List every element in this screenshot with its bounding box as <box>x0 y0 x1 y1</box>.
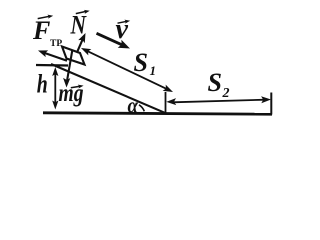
svg-text:ТР: ТР <box>50 39 62 49</box>
label N vector <box>70 9 90 40</box>
incline surface <box>51 64 166 113</box>
gravity force arrow mg <box>67 50 72 81</box>
S2 dimension arrow (double-headed horizontal) <box>172 100 266 103</box>
right vertical tick <box>270 93 272 115</box>
label F vector <box>32 14 54 45</box>
ground line <box>43 113 272 114</box>
svg-text:v: v <box>116 14 129 45</box>
normal force arrow N <box>77 38 84 53</box>
vertical tick at incline base <box>165 92 167 113</box>
velocity arrow v <box>97 33 124 45</box>
block on incline <box>62 47 85 65</box>
angle arc alpha <box>139 105 144 112</box>
svg-text:h: h <box>37 69 48 99</box>
h dimension arrow (double-headed vertical) <box>54 72 56 105</box>
S1 dimension arrow along incline (double-headed) <box>86 50 168 89</box>
svg-text:1: 1 <box>150 63 157 78</box>
friction force arrow F_tr (up the incline) <box>44 53 67 61</box>
h top tick <box>36 64 68 67</box>
label v vector <box>116 14 131 45</box>
svg-text:α: α <box>128 93 139 118</box>
svg-text:S: S <box>208 68 222 97</box>
svg-text:S: S <box>134 48 148 77</box>
label mg vector <box>59 80 84 107</box>
svg-text:F: F <box>32 16 50 45</box>
svg-text:N: N <box>70 11 87 40</box>
svg-text:2: 2 <box>222 86 230 101</box>
svg-text:mg: mg <box>59 80 84 107</box>
